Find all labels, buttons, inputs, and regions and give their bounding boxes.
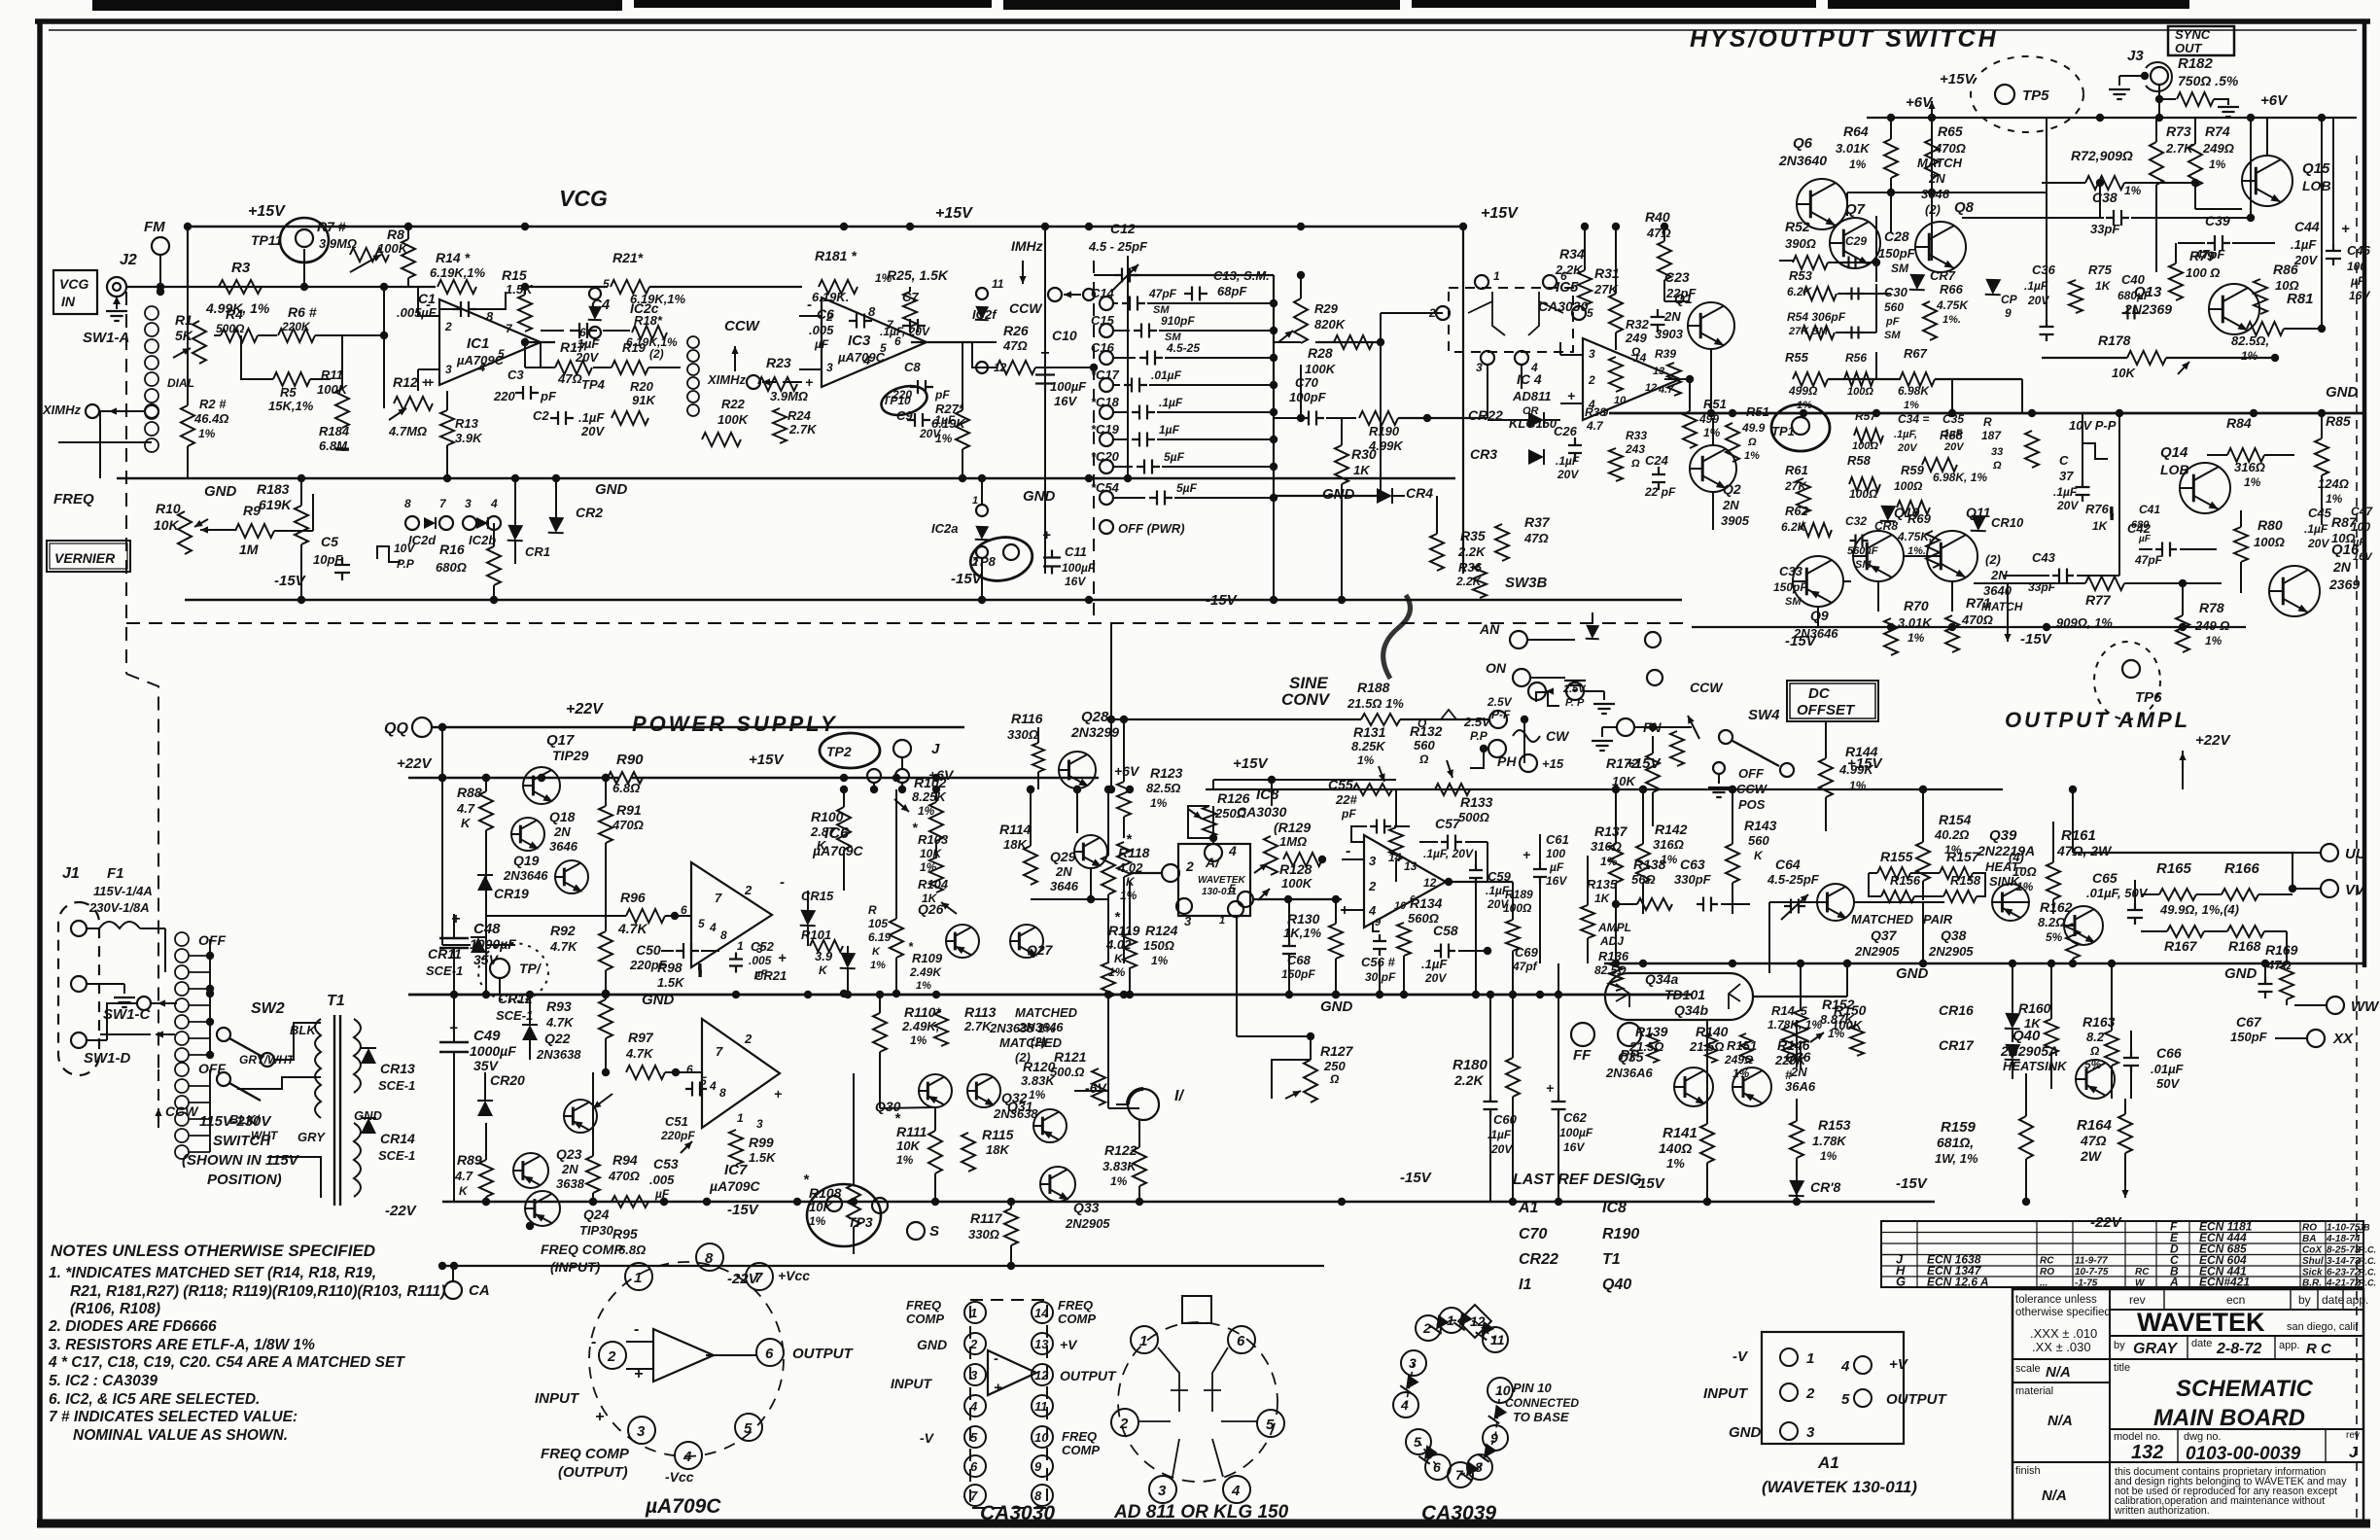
svg-text:11: 11: [992, 277, 1004, 291]
svg-text:6: 6: [1237, 1333, 1245, 1349]
svg-text:1%: 1%: [1666, 1156, 1685, 1171]
terminal VV: [2321, 880, 2338, 897]
svg-text:R81: R81: [2287, 291, 2314, 307]
test point TP6: [2094, 642, 2160, 719]
svg-text:GND: GND: [595, 481, 628, 498]
svg-text:C56 #: C56 #: [1361, 955, 1395, 969]
svg-text:+6V: +6V: [2260, 92, 2289, 109]
svg-text:R27*: R27*: [935, 402, 964, 416]
svg-text:1%: 1%: [935, 432, 953, 445]
svg-text:CR1: CR1: [525, 544, 550, 559]
svg-text:R90: R90: [616, 752, 644, 768]
svg-text:COMP: COMP: [1062, 1443, 1100, 1457]
svg-text:TP11: TP11: [251, 232, 283, 248]
wire sw1 bus: [209, 939, 211, 1055]
svg-text:CoX: CoX: [2302, 1245, 2323, 1256]
svg-text:R20: R20: [630, 379, 654, 394]
svg-text:INPUT: INPUT: [535, 1390, 580, 1407]
svg-text:10K: 10K: [809, 1200, 833, 1214]
svg-text:4: 4: [969, 1399, 978, 1414]
svg-text:Q35: Q35: [1618, 1049, 1644, 1065]
svg-text:4.7: 4.7: [1658, 384, 1674, 396]
svg-text:R131: R131: [1353, 724, 1386, 740]
svg-text:Shul: Shul: [2302, 1256, 2324, 1267]
rail dots power: [482, 1198, 490, 1206]
svg-text:10: 10: [1394, 900, 1407, 912]
svg-text:1%: 1%: [2209, 157, 2226, 171]
svg-text:1: 1: [1493, 269, 1500, 283]
svg-text:6.19: 6.19: [868, 930, 892, 944]
svg-text:R78: R78: [2199, 600, 2224, 615]
resistor R17: [555, 361, 592, 374]
wire ic5 out: [1664, 378, 1690, 380]
wire IC1 input: [417, 287, 419, 316]
svg-text:Q10: Q10: [1894, 505, 1920, 520]
svg-text:LOB: LOB: [2160, 462, 2189, 477]
svg-text:4: 4: [1840, 1358, 1850, 1375]
transistor Q18: [511, 818, 544, 851]
transistor Q23: [513, 1153, 548, 1188]
svg-text:.01µF: .01µF: [2151, 1062, 2185, 1076]
svg-text:100pF: 100pF: [1289, 390, 1327, 404]
svg-text:8: 8: [404, 497, 411, 510]
svg-text:COMP: COMP: [906, 1312, 944, 1326]
svg-text:R155: R155: [1880, 849, 1913, 864]
resistor R95 series: [612, 1196, 648, 1207]
svg-text:680µF: 680µF: [2117, 289, 2152, 302]
svg-text:47Ω: 47Ω: [557, 371, 582, 386]
svg-text:330pF: 330pF: [1674, 872, 1712, 887]
svg-text:NOMINAL VALUE AS SHOWN.: NOMINAL VALUE AS SHOWN.: [73, 1427, 288, 1444]
svg-text:-15V: -15V: [1633, 1175, 1666, 1192]
svg-text:10V: 10V: [394, 542, 415, 555]
svg-text:+6V: +6V: [1114, 763, 1140, 779]
svg-text:(2): (2): [1925, 202, 1941, 217]
wire hys q15 vertical: [2321, 118, 2323, 329]
svg-text:1%: 1%: [916, 980, 931, 992]
svg-text:R159: R159: [1941, 1119, 1977, 1136]
svg-text:R6 #: R6 #: [288, 304, 317, 320]
svg-text:+: +: [634, 1366, 643, 1382]
svg-text:FF: FF: [1573, 1047, 1592, 1064]
svg-text:CONNECTED: CONNECTED: [1505, 1396, 1579, 1410]
svg-text:4.7MΩ: 4.7MΩ: [388, 424, 427, 438]
svg-text:C29: C29: [1845, 234, 1867, 248]
svg-text:2.2K: 2.2K: [1457, 544, 1487, 559]
svg-text:1%.: 1%.: [1942, 314, 1961, 326]
svg-text:PAIR: PAIR: [1923, 912, 1953, 927]
svg-text:C43: C43: [2032, 550, 2056, 565]
ground at J2: [116, 297, 118, 309]
svg-text:Q19: Q19: [513, 853, 540, 868]
GND rail VCG: [117, 477, 1455, 480]
svg-text:C3: C3: [507, 367, 524, 382]
capacitor C14: [1100, 297, 1113, 310]
svg-text:20V: 20V: [1490, 1142, 1513, 1156]
wire q1 q2 verticals: [1710, 349, 1712, 413]
svg-text:R115: R115: [982, 1127, 1014, 1142]
terminal FN: [1617, 718, 1634, 736]
resistor R190: [1359, 411, 1398, 425]
dc offset box: [1787, 681, 1878, 721]
svg-text:7: 7: [716, 1044, 723, 1059]
svg-text:Q9: Q9: [1810, 608, 1829, 623]
svg-text:(WAVETEK 130-011): (WAVETEK 130-011): [1762, 1478, 1917, 1496]
svg-text:47pF: 47pF: [2134, 553, 2163, 567]
svg-text:-15V: -15V: [1785, 633, 1818, 649]
svg-text:4: 4: [1400, 1397, 1409, 1413]
AD811 internal transistors: [1158, 1347, 1179, 1412]
svg-text:Q18: Q18: [549, 809, 576, 824]
svg-text:P. P: P. P: [1565, 697, 1585, 709]
svg-text:TP10: TP10: [883, 394, 911, 407]
wire td101 out: [1753, 996, 1847, 997]
svg-text:-: -: [780, 874, 785, 891]
svg-text:Q1: Q1: [1674, 291, 1693, 306]
svg-text:R102: R102: [914, 775, 947, 790]
svg-text:CCW: CCW: [1009, 300, 1043, 316]
test point TP10: [878, 381, 930, 419]
test point TP3: [807, 1184, 881, 1246]
svg-text:Q28: Q28: [1081, 709, 1109, 725]
transistor Q33: [1040, 1167, 1075, 1202]
svg-text:+15V: +15V: [1233, 755, 1269, 772]
svg-text:µF: µF: [814, 337, 829, 351]
svg-text:4.5-25pF: 4.5-25pF: [1767, 872, 1820, 887]
svg-text:R180: R180: [1452, 1057, 1488, 1073]
svg-text:390Ω: 390Ω: [1785, 236, 1816, 251]
svg-text:R71: R71: [1966, 595, 1991, 611]
svg-text:100K: 100K: [1305, 362, 1337, 376]
svg-text:.1µF: .1µF: [1159, 396, 1183, 409]
svg-text:1%: 1%: [1120, 889, 1137, 902]
svg-text:47Ω, 2W: 47Ω, 2W: [2056, 843, 2113, 858]
svg-text:FREQ: FREQ: [906, 1298, 941, 1312]
svg-text:Q40: Q40: [2012, 1028, 2041, 1044]
terminal S: [907, 1222, 925, 1240]
svg-text:.1µF: .1µF: [2291, 237, 2317, 252]
svg-text:4: 4: [682, 1449, 692, 1465]
svg-text:3905: 3905: [1721, 513, 1750, 528]
svg-text:OFF: OFF: [198, 932, 226, 948]
svg-text:A/: A/: [1205, 855, 1221, 870]
svg-text:7 # INDICATES SELECTED VALUE:: 7 # INDICATES SELECTED VALUE:: [49, 1409, 297, 1425]
svg-text:220: 220: [493, 389, 515, 403]
svg-text:LAST REF DESIG.: LAST REF DESIG.: [1513, 1172, 1646, 1188]
svg-text:CR20: CR20: [490, 1072, 525, 1088]
svg-text:R188: R188: [1357, 680, 1390, 695]
svg-text:1%: 1%: [896, 1153, 914, 1167]
svg-text:12: 12: [1034, 1368, 1049, 1382]
svg-text:6.98K, 1%: 6.98K, 1%: [1933, 471, 1987, 484]
vcg in box: [53, 270, 97, 314]
svg-text:R138: R138: [1633, 857, 1666, 872]
svg-text:2: 2: [744, 883, 752, 897]
svg-text:C26: C26: [1554, 424, 1578, 438]
IC4 dashed box: [1449, 288, 1573, 352]
svg-text:CR22: CR22: [1519, 1251, 1558, 1268]
svg-text:OFF (PWR): OFF (PWR): [1118, 521, 1185, 536]
svg-text:16V: 16V: [1054, 394, 1077, 408]
svg-text:R18*: R18*: [634, 313, 663, 328]
svg-text:100 Ω: 100 Ω: [2186, 265, 2220, 280]
svg-text:by: by: [2114, 1340, 2125, 1351]
svg-text:1%: 1%: [1907, 631, 1925, 645]
svg-text:1: 1: [970, 1306, 977, 1320]
svg-text:CA3030: CA3030: [1538, 298, 1589, 314]
svg-text:13: 13: [1034, 1337, 1049, 1351]
svg-text:Ω: Ω: [1747, 437, 1757, 448]
svg-text:3.9MΩ: 3.9MΩ: [319, 236, 357, 251]
svg-text:100K: 100K: [1281, 876, 1313, 891]
svg-text:+: +: [774, 1086, 782, 1102]
svg-text:R28: R28: [1308, 345, 1333, 361]
capacitor C17: [1100, 378, 1113, 392]
svg-text:3646: 3646: [1050, 879, 1079, 893]
IC4 transistors: [1468, 292, 1492, 313]
svg-text:2N3638: 2N3638: [993, 1106, 1038, 1121]
svg-text:R134: R134: [1410, 895, 1443, 911]
svg-text:by: by: [2298, 1293, 2311, 1307]
svg-text:6. IC2, & IC5 ARE SELECTED.: 6. IC2, & IC5 ARE SELECTED.: [49, 1391, 260, 1408]
svg-text:C2: C2: [533, 408, 549, 423]
svg-text:2N2905: 2N2905: [1854, 944, 1900, 959]
svg-text:MATCHED: MATCHED: [1851, 912, 1914, 927]
svg-text:R66: R66: [1940, 282, 1964, 297]
svg-text:GND: GND: [1320, 998, 1353, 1015]
svg-text:C64: C64: [1775, 857, 1801, 872]
svg-text:4.7K: 4.7K: [549, 939, 578, 954]
svg-text:CA3039: CA3039: [1421, 1502, 1496, 1524]
svg-text:µA709C: µA709C: [837, 350, 886, 365]
svg-text:1%: 1%: [910, 1033, 927, 1047]
svg-text:+: +: [595, 1409, 604, 1425]
svg-text:T1: T1: [327, 993, 345, 1009]
svg-text:2N: 2N: [561, 1162, 578, 1176]
svg-text:+Vcc: +Vcc: [778, 1268, 810, 1283]
svg-text:OUTPUT: OUTPUT: [792, 1346, 855, 1362]
svg-text:C68: C68: [1287, 953, 1312, 967]
svg-text:3: 3: [1158, 1483, 1167, 1499]
test point TP1: [1771, 404, 1830, 451]
svg-text:C60: C60: [1493, 1112, 1518, 1127]
svg-text:680: 680: [2131, 519, 2150, 531]
+15V rail power-output: [1206, 788, 2003, 790]
svg-text:150pF: 150pF: [1281, 967, 1315, 981]
svg-text:-15V: -15V: [1206, 592, 1239, 609]
svg-text:3: 3: [826, 361, 833, 374]
svg-text:R156: R156: [1890, 873, 1921, 888]
test point TP1: [478, 943, 548, 1001]
svg-text:.1µF, 20V: .1µF, 20V: [1423, 847, 1474, 860]
svg-text:(OUTPUT): (OUTPUT): [558, 1464, 628, 1481]
svg-text:IC8: IC8: [1256, 787, 1279, 803]
svg-text:6: 6: [970, 1459, 978, 1474]
svg-text:CP: CP: [2001, 293, 2018, 306]
svg-text:8: 8: [705, 1250, 714, 1267]
svg-text:R9: R9: [243, 503, 261, 518]
svg-text:5: 5: [698, 917, 705, 930]
svg-text:MAIN BOARD: MAIN BOARD: [2153, 1405, 2305, 1431]
svg-text:+: +: [1567, 388, 1575, 403]
svg-text:6.19K,1%: 6.19K,1%: [430, 265, 486, 280]
svg-text:.1µF: .1µF: [2304, 522, 2328, 536]
svg-text:250: 250: [1323, 1059, 1346, 1073]
svg-text:VV: VV: [2345, 882, 2366, 898]
svg-text:1K: 1K: [2095, 279, 2112, 293]
svg-text:I1: I1: [1519, 1277, 1531, 1293]
svg-text:3: 3: [1589, 347, 1595, 361]
svg-text:IC1: IC1: [467, 335, 489, 352]
svg-text:app.: app.: [2279, 1340, 2299, 1351]
svg-text:100Ω: 100Ω: [2254, 535, 2285, 549]
FF PP terminals: [1571, 1023, 1594, 1046]
svg-text:SCHEMATIC: SCHEMATIC: [2176, 1376, 2314, 1402]
diode CR7: [1909, 274, 1926, 291]
svg-text:3: 3: [1806, 1424, 1815, 1441]
svg-text:CCW: CCW: [165, 1103, 199, 1119]
svg-text:.1µF: .1µF: [2024, 279, 2048, 293]
svg-text:3646: 3646: [1921, 187, 1950, 201]
svg-text:C41: C41: [2139, 503, 2160, 516]
svg-text:1: 1: [1806, 1350, 1814, 1367]
svg-text:R72,909Ω: R72,909Ω: [2071, 148, 2133, 163]
svg-text:AMPL: AMPL: [1597, 921, 1631, 934]
svg-text:pF: pF: [540, 389, 557, 403]
svg-text:2N: 2N: [1928, 171, 1945, 186]
svg-text:100Ω: 100Ω: [1894, 479, 1923, 493]
svg-text:20V: 20V: [1897, 442, 1918, 454]
svg-text:SW2: SW2: [251, 1000, 285, 1017]
svg-text:6: 6: [579, 326, 586, 339]
A1 hybrid mid: [1178, 844, 1250, 916]
svg-text:2.7K: 2.7K: [788, 422, 818, 437]
wire VCG input: [188, 286, 436, 288]
svg-text:20V: 20V: [2056, 499, 2079, 512]
svg-text:1%: 1%: [1820, 1149, 1837, 1163]
sw3 upper circles: [1528, 682, 1546, 700]
svg-text:R29: R29: [1314, 301, 1339, 316]
svg-text:SYNC: SYNC: [2175, 27, 2211, 42]
svg-text:PH: PH: [1497, 753, 1517, 769]
resistor R9: [235, 524, 274, 538]
svg-text:16V: 16V: [2349, 289, 2370, 302]
svg-text:3.9MΩ: 3.9MΩ: [770, 389, 808, 403]
svg-text:+: +: [1546, 1080, 1554, 1096]
transistor Q37: [1817, 884, 1854, 921]
svg-text:QQ: QQ: [384, 720, 408, 737]
svg-text:+: +: [2341, 221, 2350, 237]
svg-text:app.: app.: [2346, 1293, 2368, 1307]
svg-text:CR3: CR3: [1470, 446, 1497, 462]
svg-text:Q17: Q17: [546, 732, 575, 749]
svg-text:R157: R157: [1946, 849, 1980, 864]
svg-text:R58: R58: [1847, 453, 1872, 468]
resistors R167 R168: [2167, 926, 2204, 937]
svg-text:1MΩ: 1MΩ: [1279, 834, 1307, 849]
svg-text:5: 5: [970, 1430, 978, 1445]
svg-text:Ω: Ω: [1329, 1072, 1340, 1086]
svg-text:XIMHz: XIMHz: [707, 372, 747, 387]
svg-text:2.5V: 2.5V: [1487, 695, 1513, 709]
svg-text:132: 132: [2131, 1442, 2163, 1463]
svg-text:R89: R89: [457, 1152, 482, 1168]
svg-text:OUTPUT: OUTPUT: [1886, 1391, 1948, 1408]
CA3030 pinout diagram: [970, 1300, 1047, 1508]
transistor Q24: [525, 1191, 560, 1226]
svg-text:R24: R24: [787, 408, 812, 423]
wires hys mid: [1779, 260, 1794, 262]
svg-text:R184: R184: [319, 424, 350, 438]
svg-text:R.C.: R.C.: [2359, 1268, 2376, 1277]
svg-text:100Ω: 100Ω: [1503, 901, 1532, 915]
title block: [2012, 1289, 2363, 1521]
svg-text:K: K: [461, 816, 472, 830]
svg-text:date: date: [2191, 1338, 2212, 1349]
svg-text:1.5K: 1.5K: [657, 975, 685, 990]
svg-text:91K: 91K: [632, 393, 656, 407]
svg-text:GND: GND: [2326, 384, 2359, 401]
svg-text:SCE-1: SCE-1: [426, 963, 463, 978]
svg-text:2N2905: 2N2905: [1928, 944, 1974, 959]
svg-text:R93: R93: [546, 998, 572, 1014]
svg-text:1%: 1%: [2244, 475, 2261, 489]
svg-text:+15: +15: [1542, 756, 1564, 771]
svg-text:8.87K: 8.87K: [1820, 1012, 1855, 1027]
svg-text:8: 8: [720, 928, 727, 942]
svg-text:8: 8: [486, 309, 494, 324]
svg-text:4.99K: 4.99K: [1838, 762, 1874, 777]
svg-text:6.98K: 6.98K: [1898, 384, 1930, 398]
op-amp IC1: [439, 299, 541, 385]
svg-text:2: 2: [1368, 879, 1377, 893]
svg-text:R91: R91: [616, 802, 642, 818]
svg-text:2N2905: 2N2905: [1065, 1216, 1110, 1231]
svg-text:150pF: 150pF: [1878, 246, 1916, 261]
svg-text:CR4: CR4: [1406, 485, 1433, 501]
power rail verticals: [441, 778, 443, 945]
svg-text:R4: R4: [226, 306, 243, 322]
sine conv squiggle arrow: [1383, 595, 1411, 679]
svg-text:1K: 1K: [1594, 892, 1611, 905]
svg-text:C: C: [2059, 453, 2069, 468]
svg-text:GND: GND: [917, 1337, 947, 1352]
svg-text:2N: 2N: [1663, 309, 1681, 324]
svg-text:R101: R101: [801, 927, 831, 942]
test point TP11: [280, 218, 329, 262]
capacitor C19: [1100, 433, 1113, 446]
svg-text:IMHz: IMHz: [1011, 238, 1043, 254]
svg-text:R142: R142: [1655, 822, 1688, 837]
svg-text:Q32: Q32: [1001, 1090, 1028, 1105]
svg-text:9: 9: [1375, 917, 1382, 928]
svg-text:R38: R38: [1585, 405, 1606, 419]
svg-text:4: 4: [862, 353, 871, 367]
diode CR19 zener: [477, 875, 493, 891]
svg-text:R15: R15: [502, 267, 527, 283]
svg-text:47Ω: 47Ω: [1523, 531, 1549, 545]
svg-text:6-23-72: 6-23-72: [2327, 1268, 2361, 1278]
svg-text:100Ω: 100Ω: [1847, 386, 1873, 398]
svg-text:F1: F1: [107, 865, 124, 882]
svg-text:CR17: CR17: [1939, 1037, 1975, 1053]
svg-text:FREQ: FREQ: [1058, 1298, 1093, 1312]
transistor Q16: [2269, 566, 2320, 616]
svg-text:33pF: 33pF: [2090, 222, 2120, 236]
svg-text:5: 5: [498, 347, 505, 361]
svg-text:115V-1/4A: 115V-1/4A: [93, 884, 153, 898]
svg-text:R11: R11: [321, 367, 343, 382]
